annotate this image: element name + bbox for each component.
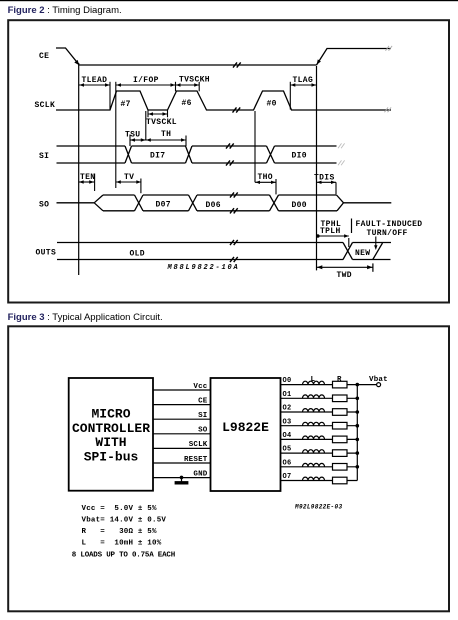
svg-text:O0: O0: [283, 377, 292, 385]
node SI crossover X2: [186, 146, 193, 163]
dimension TVSCKH: [176, 76, 210, 92]
svg-text:O1: O1: [283, 391, 292, 399]
svg-text:#7: #7: [121, 100, 131, 109]
svg-text:TV: TV: [124, 173, 134, 182]
dimension TVSCKL: [146, 111, 177, 128]
svg-text:OUTS: OUTS: [36, 249, 57, 258]
svg-text:L9822E: L9822E: [222, 420, 269, 435]
terminal Vbat: [377, 383, 381, 387]
inductor L (row 6): [303, 463, 325, 466]
svg-text:SPI-bus: SPI-bus: [84, 450, 139, 465]
value label OLD: [130, 250, 145, 259]
svg-text:O3: O3: [283, 418, 292, 426]
svg-text:MICRO: MICRO: [91, 406, 130, 421]
dimension TSU: [125, 111, 146, 146]
inductor L (row 7): [303, 477, 325, 480]
note R value: [82, 528, 158, 536]
pin label O6: [283, 459, 292, 467]
junction dot (row 3): [356, 424, 360, 428]
wire RESET (MCU to L9822E): [153, 462, 211, 464]
dimension TDIS: [314, 173, 336, 194]
wire SCLK (MCU to L9822E): [153, 447, 211, 449]
wire SO D00 window: [279, 195, 338, 211]
value label DI0: [292, 152, 307, 161]
svg-text:O7: O7: [283, 473, 292, 481]
svg-text:NEW: NEW: [355, 249, 370, 258]
inductor L (row 5): [303, 450, 325, 453]
pin label SO: [198, 427, 208, 435]
svg-text:SO: SO: [198, 427, 208, 435]
wire SI rails middle: [192, 146, 267, 163]
svg-text:TWD: TWD: [337, 271, 352, 280]
node SI label: [39, 152, 49, 161]
label L: [311, 376, 316, 384]
svg-text:D06: D06: [206, 201, 221, 210]
wire output O3: [281, 425, 358, 427]
note loads: [72, 551, 175, 559]
wire SO (MCU to L9822E): [153, 433, 211, 435]
value label DI7: [150, 152, 165, 161]
svg-text:8 LOADS UP TO 0.75A EACH: 8 LOADS UP TO 0.75A EACH: [72, 551, 175, 559]
junction dot (row 2): [356, 410, 360, 414]
node SO disable merge: [337, 195, 344, 211]
label FAULT-INDUCED: [356, 220, 423, 229]
pin label GND: [193, 470, 207, 478]
pin label O2: [283, 405, 292, 413]
faded break at SCLK line end: [385, 107, 392, 112]
svg-text:R = 30Ω ± 5%: R = 30Ω ± 5%: [82, 528, 158, 536]
inductor L (row 2): [303, 409, 325, 412]
resistor R (row 4): [333, 436, 348, 443]
svg-text:THO: THO: [258, 173, 273, 182]
node SO label: [39, 201, 49, 210]
wire output O1: [281, 397, 358, 399]
svg-text:Vcc = 5.0V ± 5%: Vcc = 5.0V ± 5%: [82, 505, 158, 513]
svg-text:DI0: DI0: [292, 152, 307, 161]
svg-text:O4: O4: [283, 432, 292, 440]
node reference line A (CE fall): [78, 63, 80, 275]
IC L9822E: [211, 378, 281, 491]
node SI crossover X3: [267, 146, 275, 163]
node SI crossover X1: [125, 146, 132, 163]
wire SO tristate right: [344, 202, 392, 204]
svg-text:O2: O2: [283, 405, 292, 413]
drawing code M92L9822E-03: [294, 504, 342, 511]
junction dot (row 1): [356, 397, 360, 401]
svg-text:TDIS: TDIS: [314, 173, 335, 182]
wire SCLK waveform (pulse 0): [240, 91, 391, 110]
svg-text:O6: O6: [283, 459, 292, 467]
svg-text:SCLK: SCLK: [189, 441, 208, 449]
pin label SI: [198, 412, 207, 420]
label TPHL: [321, 220, 342, 229]
svg-text:FAULT-INDUCED: FAULT-INDUCED: [356, 220, 423, 229]
wire CE low segment: [79, 64, 317, 66]
svg-text:M92L9822E-03: M92L9822E-03: [294, 504, 342, 511]
junction dot (row 0): [356, 383, 360, 387]
svg-text:Figure 3 : Typical Application: Figure 3 : Typical Application Circuit.: [8, 312, 163, 323]
svg-text:TEN: TEN: [80, 173, 95, 182]
svg-text:I/FOP: I/FOP: [133, 76, 159, 85]
label TPLH: [320, 227, 341, 236]
wire SO empty window: [103, 195, 135, 211]
note Vbat value: [82, 516, 167, 524]
node SO crossover X4: [135, 195, 144, 211]
svg-text:Vbat: Vbat: [369, 376, 388, 384]
wire SI bus rails left: [57, 146, 126, 163]
node SO crossover X5: [189, 195, 198, 211]
wire output O4: [281, 438, 358, 440]
inductor L (row 3): [303, 422, 325, 425]
wire CE (MCU to L9822E): [153, 404, 211, 406]
svg-text:SO: SO: [39, 201, 49, 210]
node SCLK label: [35, 101, 56, 110]
dimension TPHL/TPLH arrow: [316, 234, 349, 247]
svg-text:TLAG: TLAG: [293, 76, 314, 85]
svg-text:#6: #6: [182, 99, 192, 108]
svg-text:TURN/OFF: TURN/OFF: [367, 229, 408, 238]
value label D07: [156, 201, 171, 210]
junction dot (row 6): [356, 465, 360, 469]
ground symbol: [175, 477, 189, 482]
wire output O7: [281, 480, 358, 482]
caption Figure 2: [8, 5, 122, 16]
svg-text:Vcc: Vcc: [193, 383, 207, 391]
resistor R (row 7): [333, 477, 348, 484]
svg-text:TVSCKL: TVSCKL: [146, 118, 177, 127]
svg-text:L = 10mH ± 10%: L = 10mH ± 10%: [82, 539, 162, 547]
wire SCLK waveform (pulses 7 and 6): [56, 91, 240, 110]
svg-text:D00: D00: [292, 201, 307, 210]
wire SI DI0 window: [275, 146, 337, 163]
dimension TH: [146, 130, 186, 146]
svg-text:TSU: TSU: [125, 131, 140, 140]
inductor L (row 4): [303, 436, 325, 439]
inductor L (row 0): [303, 381, 325, 384]
pin number #6: [182, 99, 192, 108]
pointer arrow to transition: [374, 237, 377, 251]
pin label Vcc: [193, 383, 207, 391]
svg-text:GND: GND: [193, 470, 207, 478]
faded break at SI rails end: [338, 143, 345, 165]
Figure 3 border frame: [8, 326, 449, 611]
wire output O5: [281, 452, 358, 454]
value label D06: [206, 201, 221, 210]
faded break at CE line end: [386, 46, 393, 51]
junction dot (row 4): [356, 438, 360, 442]
pin label O0: [283, 377, 292, 385]
dimension TWD: [317, 263, 373, 279]
svg-text:RESET: RESET: [184, 456, 208, 464]
pin label O4: [283, 432, 292, 440]
caption Figure 3: [8, 312, 163, 323]
node fault turn-off transition: [373, 243, 383, 260]
pin label O1: [283, 391, 292, 399]
wire break on SO rails: [230, 192, 238, 213]
node reference line B (CE rise): [316, 66, 318, 270]
pin label O5: [283, 446, 292, 454]
label TURN/OFF: [367, 229, 408, 238]
node OUTS label: [36, 249, 57, 258]
dimension THO: [255, 111, 276, 194]
wire SI (MCU to L9822E): [153, 418, 211, 420]
pin number #7: [121, 100, 131, 109]
svg-text:SCLK: SCLK: [35, 101, 56, 110]
node SO crossover X6: [270, 195, 279, 211]
junction dot (row 5): [356, 451, 360, 455]
svg-text:Figure 2 : Timing Diagram.: Figure 2 : Timing Diagram.: [8, 5, 122, 16]
wire output O6: [281, 466, 358, 468]
svg-text:TPLH: TPLH: [320, 227, 341, 236]
dimension TLAG: [290, 76, 316, 110]
wire output O2: [281, 411, 358, 413]
value label D00: [292, 201, 307, 210]
wire break on SI rails: [226, 143, 234, 165]
svg-text:R: R: [337, 376, 342, 384]
svg-text:OLD: OLD: [130, 250, 145, 259]
microcontroller box U1: [69, 378, 153, 491]
wire break on OUTS rails: [230, 240, 238, 262]
resistor R (row 5): [333, 450, 348, 457]
label Vbat: [369, 376, 388, 384]
svg-text:L: L: [311, 376, 316, 384]
svg-text:SI: SI: [39, 152, 49, 161]
wire GND (MCU to L9822E): [153, 477, 211, 479]
wire CE rising edge + high: [317, 49, 392, 66]
pin label SCLK: [189, 441, 208, 449]
node CE label: [39, 52, 49, 61]
note L value: [82, 539, 162, 547]
wire SI DI7 window: [132, 146, 186, 163]
separator bar: [351, 219, 353, 234]
drawing code M88L9822-10A: [167, 264, 240, 272]
inductor L (row 1): [303, 395, 325, 398]
resistor R (row 1): [333, 395, 348, 402]
wire break on SCLK low: [233, 107, 241, 112]
wire SO tristate mid line: [57, 202, 95, 204]
junction dot on GND wire: [180, 476, 184, 480]
svg-text:TLEAD: TLEAD: [82, 76, 108, 85]
svg-text:DI7: DI7: [150, 152, 165, 161]
svg-text:#0: #0: [267, 100, 277, 109]
svg-text:WITH: WITH: [95, 435, 126, 450]
dimension I/FOP: [116, 76, 176, 188]
note Vcc value: [82, 505, 158, 513]
label R: [337, 376, 342, 384]
wire break on CE low: [233, 62, 241, 67]
pin label CE: [198, 397, 208, 405]
dimension TV: [116, 173, 142, 193]
resistor R (row 0): [333, 381, 348, 388]
resistor R (row 3): [333, 422, 348, 429]
svg-text:TVSCKH: TVSCKH: [179, 76, 210, 85]
wire SO D06 window: [197, 195, 270, 211]
wire Vbat rail: [356, 385, 358, 481]
dimension TEN: [79, 173, 96, 191]
svg-text:CE: CE: [39, 52, 49, 61]
value label NEW: [355, 249, 370, 258]
Figure 2 border frame: [8, 20, 449, 302]
svg-text:Vbat= 14.0V ± 0.5V: Vbat= 14.0V ± 0.5V: [82, 516, 167, 524]
node SO enable split: [94, 195, 103, 211]
svg-text:CONTROLLER: CONTROLLER: [72, 421, 150, 436]
wire Vcc (MCU to L9822E): [153, 389, 211, 391]
resistor R (row 6): [333, 464, 348, 471]
node OUTS crossover: [343, 243, 353, 260]
wire CE high + falling edge: [56, 48, 79, 65]
wire to Vbat terminal: [357, 384, 376, 386]
svg-text:D07: D07: [156, 201, 171, 210]
resistor R (row 2): [333, 409, 348, 416]
dimension TLEAD: [79, 76, 110, 109]
svg-text:SI: SI: [198, 412, 207, 420]
pin label O3: [283, 418, 292, 426]
wire OUTS NEW window: [353, 243, 392, 260]
svg-text:TH: TH: [161, 130, 171, 139]
svg-text:CE: CE: [198, 397, 208, 405]
wire output O0: [281, 384, 358, 386]
page top rule: [0, 0, 458, 1]
pin number #0: [267, 100, 277, 109]
pin label O7: [283, 473, 292, 481]
svg-text:M88L9822-10A: M88L9822-10A: [167, 264, 240, 272]
pin label RESET: [184, 456, 208, 464]
svg-text:O5: O5: [283, 446, 292, 454]
wire OUTS rails left: [57, 243, 343, 260]
wire SO D07 window: [143, 195, 189, 211]
